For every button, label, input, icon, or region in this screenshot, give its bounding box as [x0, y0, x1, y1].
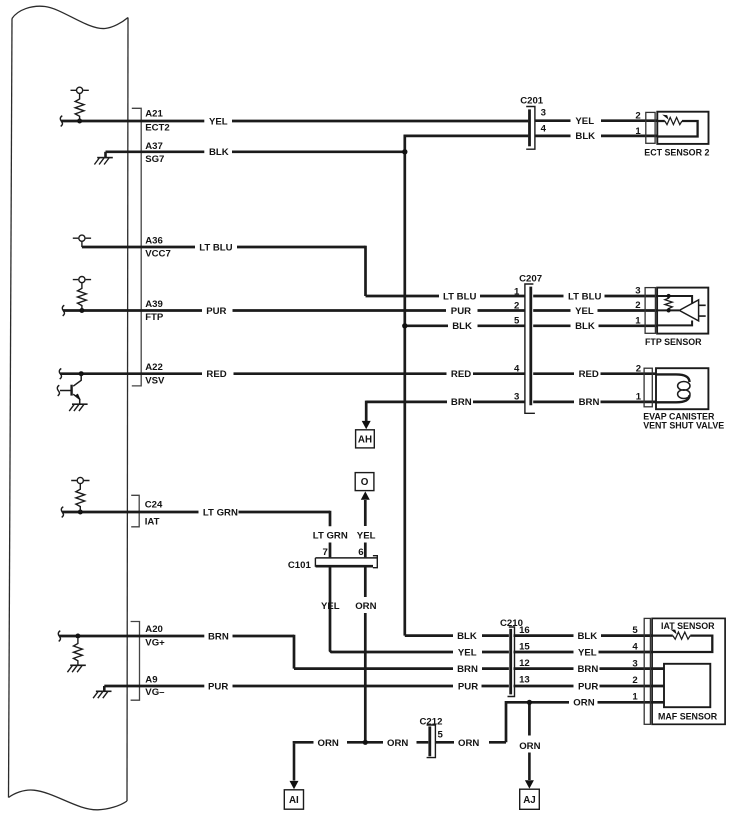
MAF sensor inner box: [664, 664, 710, 707]
IAT/MAF sensor connector bracket: [644, 618, 650, 724]
FTP divider resistor: [665, 296, 672, 310]
svg-text:ECT SENSOR 2: ECT SENSOR 2: [644, 147, 709, 157]
C207 right BRN to EVAP pin 1: [533, 401, 656, 404]
connector C212: [427, 725, 436, 758]
svg-text:4: 4: [541, 123, 547, 134]
pull-down resistor at A20: [74, 639, 83, 666]
switch contact at A36: [73, 235, 91, 247]
pull-up resistor with contact at A39: [73, 277, 91, 311]
svg-text:A20: A20: [145, 624, 163, 635]
svg-text:YEL: YEL: [578, 647, 597, 658]
C210 right side BLK to sensor pin 5: [514, 634, 653, 637]
thermistor zigzag ECT: [665, 117, 682, 124]
C201 right BLK to ECT sensor pin 1: [535, 135, 658, 138]
connector C101 (in-line, horizontal): [315, 556, 377, 568]
svg-text:A9: A9: [145, 674, 157, 685]
svg-text:ORN: ORN: [458, 738, 479, 749]
arrow stem to AJ: [528, 753, 531, 781]
wire A37 BLK to vertical node: [106, 150, 404, 153]
thermistor element inside ECT sensor 2: [658, 121, 698, 137]
svg-text:PUR: PUR: [208, 681, 228, 692]
ECT SENSOR 2 connector bracket: [646, 112, 655, 143]
svg-text:SG7: SG7: [145, 154, 164, 165]
LT GRN vertical drop to C101 pin 7: [329, 511, 332, 558]
wire-break squiggle at A22: [59, 369, 61, 380]
svg-text:1: 1: [635, 126, 641, 137]
ECT SENSOR 2 box: [657, 112, 708, 144]
junction dot ORN bottom rail: [363, 740, 368, 745]
C207 right RED to EVAP pin 2: [533, 372, 656, 375]
C207 right LT BLU to FTP pin 3: [533, 295, 657, 298]
solenoid coil inside EVAP valve: [656, 374, 690, 402]
svg-text:VCC7: VCC7: [145, 249, 171, 260]
YEL wire into C210 pin 15: [482, 651, 509, 654]
ORN bottom rail right of C212: [436, 741, 454, 744]
chassis ground below transistor: [69, 404, 87, 411]
ECM connector bracket pin C24: [131, 495, 139, 527]
chassis ground below A20 resistor: [67, 665, 85, 672]
svg-text:A21: A21: [145, 108, 163, 119]
wire-break squiggle at A20: [58, 631, 60, 642]
svg-text:3: 3: [541, 108, 546, 119]
svg-text:5: 5: [632, 625, 638, 636]
ORN from C101 pin 6 down to bottom rail: [364, 567, 367, 744]
svg-text:LT BLU: LT BLU: [568, 291, 601, 302]
svg-text:BLK: BLK: [209, 147, 229, 158]
AH reference box: [356, 430, 375, 448]
thermistor zigzag IAT: [673, 632, 691, 639]
svg-text:3: 3: [632, 659, 637, 670]
connector C201: [526, 107, 535, 150]
wire A9 PUR to C210 pin 13: [104, 685, 509, 688]
svg-text:2: 2: [635, 300, 640, 311]
arrow into AH box: [362, 421, 371, 429]
svg-text:2: 2: [636, 363, 641, 374]
svg-text:2: 2: [514, 300, 519, 311]
wire-break squiggle at A39: [62, 305, 64, 316]
wire A21 YEL to C201: [61, 120, 528, 123]
svg-text:PUR: PUR: [458, 681, 478, 692]
svg-text:A36: A36: [145, 236, 163, 247]
svg-text:4: 4: [632, 642, 638, 653]
svg-text:C207: C207: [519, 273, 542, 284]
svg-text:1: 1: [632, 692, 638, 703]
FTP resistor junction dots: [667, 294, 671, 298]
wire-break squiggle at C24: [61, 507, 63, 518]
svg-text:BRN: BRN: [451, 397, 472, 408]
svg-text:ORN: ORN: [355, 601, 376, 612]
junction dot ORN pin 1 row: [527, 700, 532, 705]
svg-text:3: 3: [635, 286, 640, 297]
svg-text:C201: C201: [520, 95, 544, 106]
svg-text:2: 2: [635, 111, 640, 122]
svg-text:VG–: VG–: [145, 687, 165, 698]
wire-break squiggle at A21: [60, 116, 62, 127]
svg-text:YEL: YEL: [575, 306, 594, 317]
svg-text:PUR: PUR: [578, 681, 598, 692]
wire LT BLU to C207 pin 1: [366, 295, 525, 298]
svg-text:5: 5: [514, 316, 520, 327]
ORN bottom rail: [294, 741, 428, 744]
ORN riser from bottom rail: [489, 701, 506, 742]
svg-text:13: 13: [519, 675, 530, 686]
svg-text:LT BLU: LT BLU: [199, 242, 232, 253]
svg-text:FTP SENSOR: FTP SENSOR: [645, 337, 702, 347]
svg-text:BRN: BRN: [457, 664, 478, 675]
FTP SENSOR connector bracket: [645, 288, 655, 334]
junction dot BLK trunk at C207 pin 5 row: [402, 323, 407, 328]
svg-text:BLK: BLK: [578, 631, 598, 642]
C210 right side PUR to sensor pin 2: [514, 685, 665, 688]
svg-text:YEL: YEL: [209, 116, 228, 127]
wire BRN drop to AH arrow: [365, 401, 368, 422]
FTP amplifier triangle: [679, 300, 698, 321]
junction dot C24 pull-up: [78, 510, 83, 515]
svg-text:C101: C101: [288, 560, 312, 571]
pull-up resistor with contact at A21: [71, 87, 89, 121]
svg-text:YEL: YEL: [357, 531, 376, 542]
BRN corner drop: [294, 635, 453, 669]
transistor emitter arrowhead: [75, 394, 81, 401]
arrow up into O box: [361, 491, 370, 499]
O reference box: [355, 473, 374, 491]
svg-text:12: 12: [519, 658, 530, 669]
wire BLK to C207 pin 5: [404, 324, 525, 327]
svg-text:LT GRN: LT GRN: [313, 531, 348, 542]
svg-text:4: 4: [514, 364, 520, 375]
AJ reference box: [520, 789, 540, 809]
FTP sensor internals: [657, 296, 705, 325]
svg-text:5: 5: [438, 730, 444, 741]
junction dot BLK trunk at A37 row: [402, 149, 407, 154]
transistor Q (VSV driver) at A22: [60, 374, 81, 404]
svg-text:BRN: BRN: [578, 664, 599, 675]
svg-text:C24: C24: [145, 499, 163, 510]
C210 right side YEL to sensor pin 4: [514, 651, 653, 654]
svg-text:YEL: YEL: [321, 601, 340, 612]
svg-text:YEL: YEL: [458, 647, 477, 658]
ORN sensor pin 1 row: [506, 701, 664, 704]
ECM connector bracket pins A21-A22: [132, 108, 141, 386]
svg-text:AH: AH: [358, 434, 372, 445]
arrow stem to AI: [293, 744, 296, 781]
junction dot A22 transistor: [79, 371, 84, 376]
svg-text:1: 1: [514, 286, 520, 297]
svg-text:C212: C212: [420, 717, 443, 728]
wire A20 BRN: [59, 635, 294, 638]
svg-text:LT GRN: LT GRN: [203, 507, 238, 518]
wire A39 PUR to C207 pin 2: [63, 309, 525, 312]
junction dot A20 pull-down: [75, 634, 80, 639]
C207 right BLK to FTP pin 1: [533, 324, 657, 327]
svg-text:MAF SENSOR: MAF SENSOR: [658, 712, 718, 722]
wire-break squiggle at transistor base: [57, 385, 59, 396]
svg-text:BRN: BRN: [208, 631, 229, 642]
svg-text:AI: AI: [289, 795, 299, 806]
svg-text:BLK: BLK: [452, 321, 472, 332]
BRN into C210 pin 12: [482, 667, 509, 670]
junction dot A21 pull-up: [77, 119, 82, 124]
svg-text:A22: A22: [145, 362, 163, 373]
wire BLK from C201 pin 4: [404, 135, 529, 138]
connector C207: [525, 284, 535, 413]
svg-text:PUR: PUR: [206, 306, 226, 317]
arrow into AJ box: [525, 780, 534, 788]
svg-text:BLK: BLK: [575, 131, 595, 142]
YEL arrow stem to O box: [364, 500, 367, 557]
pull-up resistor with contact at C24: [71, 477, 89, 512]
svg-text:3: 3: [514, 392, 519, 403]
svg-text:LT BLU: LT BLU: [443, 291, 476, 302]
svg-text:BLK: BLK: [575, 321, 595, 332]
EVAP CANISTER VENT SHUT VALVE box: [656, 368, 708, 409]
svg-text:7: 7: [322, 547, 327, 558]
svg-text:A39: A39: [145, 299, 163, 310]
svg-text:ORN: ORN: [318, 738, 339, 749]
wire LT BLU vertical drop: [364, 246, 367, 296]
chassis ground at A9: [93, 686, 111, 698]
thermistor arrow ECT: [662, 115, 668, 120]
svg-text:PUR: PUR: [451, 306, 471, 317]
svg-text:2: 2: [632, 675, 637, 686]
svg-text:BLK: BLK: [457, 631, 477, 642]
chassis ground at A37: [94, 152, 112, 165]
svg-text:VG+: VG+: [145, 637, 165, 648]
svg-text:YEL: YEL: [575, 116, 594, 127]
BLK corner into C210 pin 16: [405, 634, 509, 637]
svg-text:16: 16: [519, 625, 530, 636]
C210 right side BRN to sensor pin 3: [514, 667, 665, 670]
svg-text:ECT2: ECT2: [145, 122, 170, 133]
svg-text:O: O: [361, 477, 369, 488]
junction dot A39 pull-up: [79, 308, 84, 313]
ORN drop with junction to AJ: [528, 702, 531, 735]
YEL from C101 pin 7 down: [330, 567, 453, 652]
svg-text:15: 15: [519, 642, 530, 653]
svg-text:ORN: ORN: [387, 738, 408, 749]
FTP SENSOR box: [657, 288, 708, 334]
IAT/MAF sensor outer box: [652, 618, 725, 724]
svg-text:BRN: BRN: [579, 397, 600, 408]
connector C210: [508, 627, 515, 697]
C201 right YEL to ECT sensor pin 2: [535, 119, 658, 122]
BLK trunk vertical C201 to C210: [403, 135, 406, 636]
thermistor arrow IAT: [670, 629, 676, 634]
svg-text:FTP: FTP: [145, 312, 164, 323]
svg-text:1: 1: [636, 391, 642, 402]
wire A36 LT BLU: [82, 246, 366, 249]
ECM connector bracket pins A20-A9: [131, 622, 140, 701]
svg-text:ORN: ORN: [519, 741, 540, 752]
thermistor element inside IAT sensor: [652, 636, 712, 652]
wire A22 RED to C207 pin 4: [60, 372, 525, 375]
C207 right YEL to FTP pin 2: [533, 309, 657, 312]
svg-text:A37: A37: [145, 141, 163, 152]
ECM module outline (torn-edge block): [9, 6, 129, 810]
AI reference box: [284, 790, 303, 809]
svg-text:RED: RED: [451, 369, 471, 380]
EVAP valve connector bracket: [644, 368, 652, 407]
wire C24 LT GRN: [62, 511, 330, 514]
svg-text:VSV: VSV: [145, 375, 165, 386]
wire BRN to C207 pin 3: [366, 401, 524, 404]
svg-text:1: 1: [635, 315, 641, 326]
svg-text:ORN: ORN: [573, 698, 594, 709]
arrow into AI box: [290, 781, 299, 789]
svg-text:RED: RED: [206, 369, 226, 380]
svg-text:IAT: IAT: [145, 516, 160, 527]
svg-text:AJ: AJ: [523, 795, 536, 806]
svg-text:RED: RED: [579, 369, 599, 380]
svg-text:IAT SENSOR: IAT SENSOR: [661, 621, 715, 631]
svg-text:VENT SHUT VALVE: VENT SHUT VALVE: [643, 421, 724, 431]
svg-text:6: 6: [358, 547, 363, 558]
